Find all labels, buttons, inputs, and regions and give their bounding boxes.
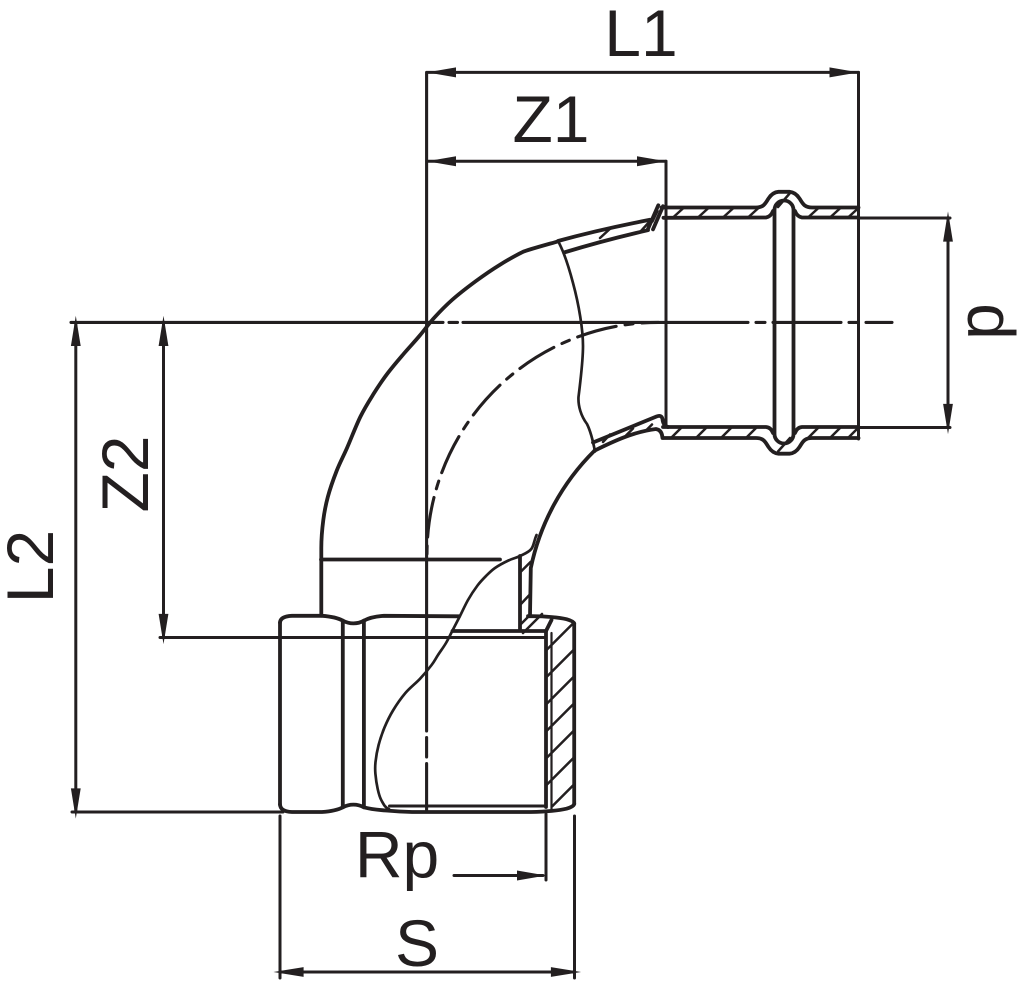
svg-text:L1: L1 (604, 0, 677, 70)
svg-text:Z1: Z1 (512, 82, 589, 156)
svg-text:S: S (395, 906, 439, 980)
svg-text:p: p (943, 303, 1017, 340)
svg-text:Z2: Z2 (88, 435, 162, 512)
svg-text:L2: L2 (0, 530, 67, 603)
svg-text:Rp: Rp (355, 818, 439, 892)
